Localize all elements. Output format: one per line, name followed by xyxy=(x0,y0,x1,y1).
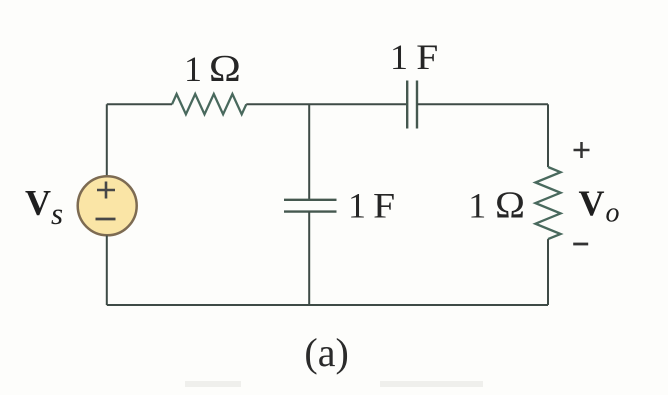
svg-text:s: s xyxy=(51,196,63,231)
svg-text:V: V xyxy=(579,183,605,223)
resistor R1 1Ω (top, zigzag) xyxy=(172,94,246,114)
svg-text:1: 1 xyxy=(468,186,486,226)
wire: middle vertical upper segment xyxy=(308,104,310,200)
svg-text:F: F xyxy=(373,186,395,226)
plus sign of Vo polarity xyxy=(574,149,590,152)
capacitor C2 1F (top, series) left plate xyxy=(406,81,408,129)
wire: left vertical lower segment xyxy=(106,236,108,306)
svg-text:1: 1 xyxy=(390,37,408,77)
svg-text:V: V xyxy=(25,183,51,223)
svg-text:Ω: Ω xyxy=(495,185,525,227)
wire: bottom horizontal xyxy=(107,304,548,306)
svg-text:F: F xyxy=(416,37,438,77)
svg-text:Ω: Ω xyxy=(209,48,241,90)
wire: left vertical upper segment xyxy=(106,104,108,176)
wire: right vertical lower segment xyxy=(547,239,549,305)
capacitor C1 bottom plate xyxy=(284,210,337,212)
wire: middle vertical lower segment xyxy=(308,212,310,305)
faint print artifact right xyxy=(380,381,483,387)
wire: top-left horizontal segment xyxy=(107,103,172,105)
svg-text:1: 1 xyxy=(184,49,202,89)
capacitor C1 1F (middle, shunt) top plate xyxy=(284,199,337,201)
resistor R2 1Ω (right, vertical zigzag) xyxy=(535,167,560,239)
svg-text:(a): (a) xyxy=(304,330,348,375)
svg-text:1: 1 xyxy=(348,186,366,226)
capacitor C2 right plate xyxy=(416,81,418,129)
wire: right vertical upper segment xyxy=(547,104,549,167)
svg-text:o: o xyxy=(606,198,620,229)
faint print artifact left xyxy=(185,381,241,387)
plus sign inside source xyxy=(97,189,115,192)
wire: top middle segment (R1 right to C2 left plate) xyxy=(246,103,407,105)
wire: top-right horizontal segment xyxy=(417,103,548,105)
minus sign inside source xyxy=(96,218,116,221)
voltage source Vs (circle) xyxy=(78,176,137,235)
minus sign of Vo polarity xyxy=(573,243,588,246)
